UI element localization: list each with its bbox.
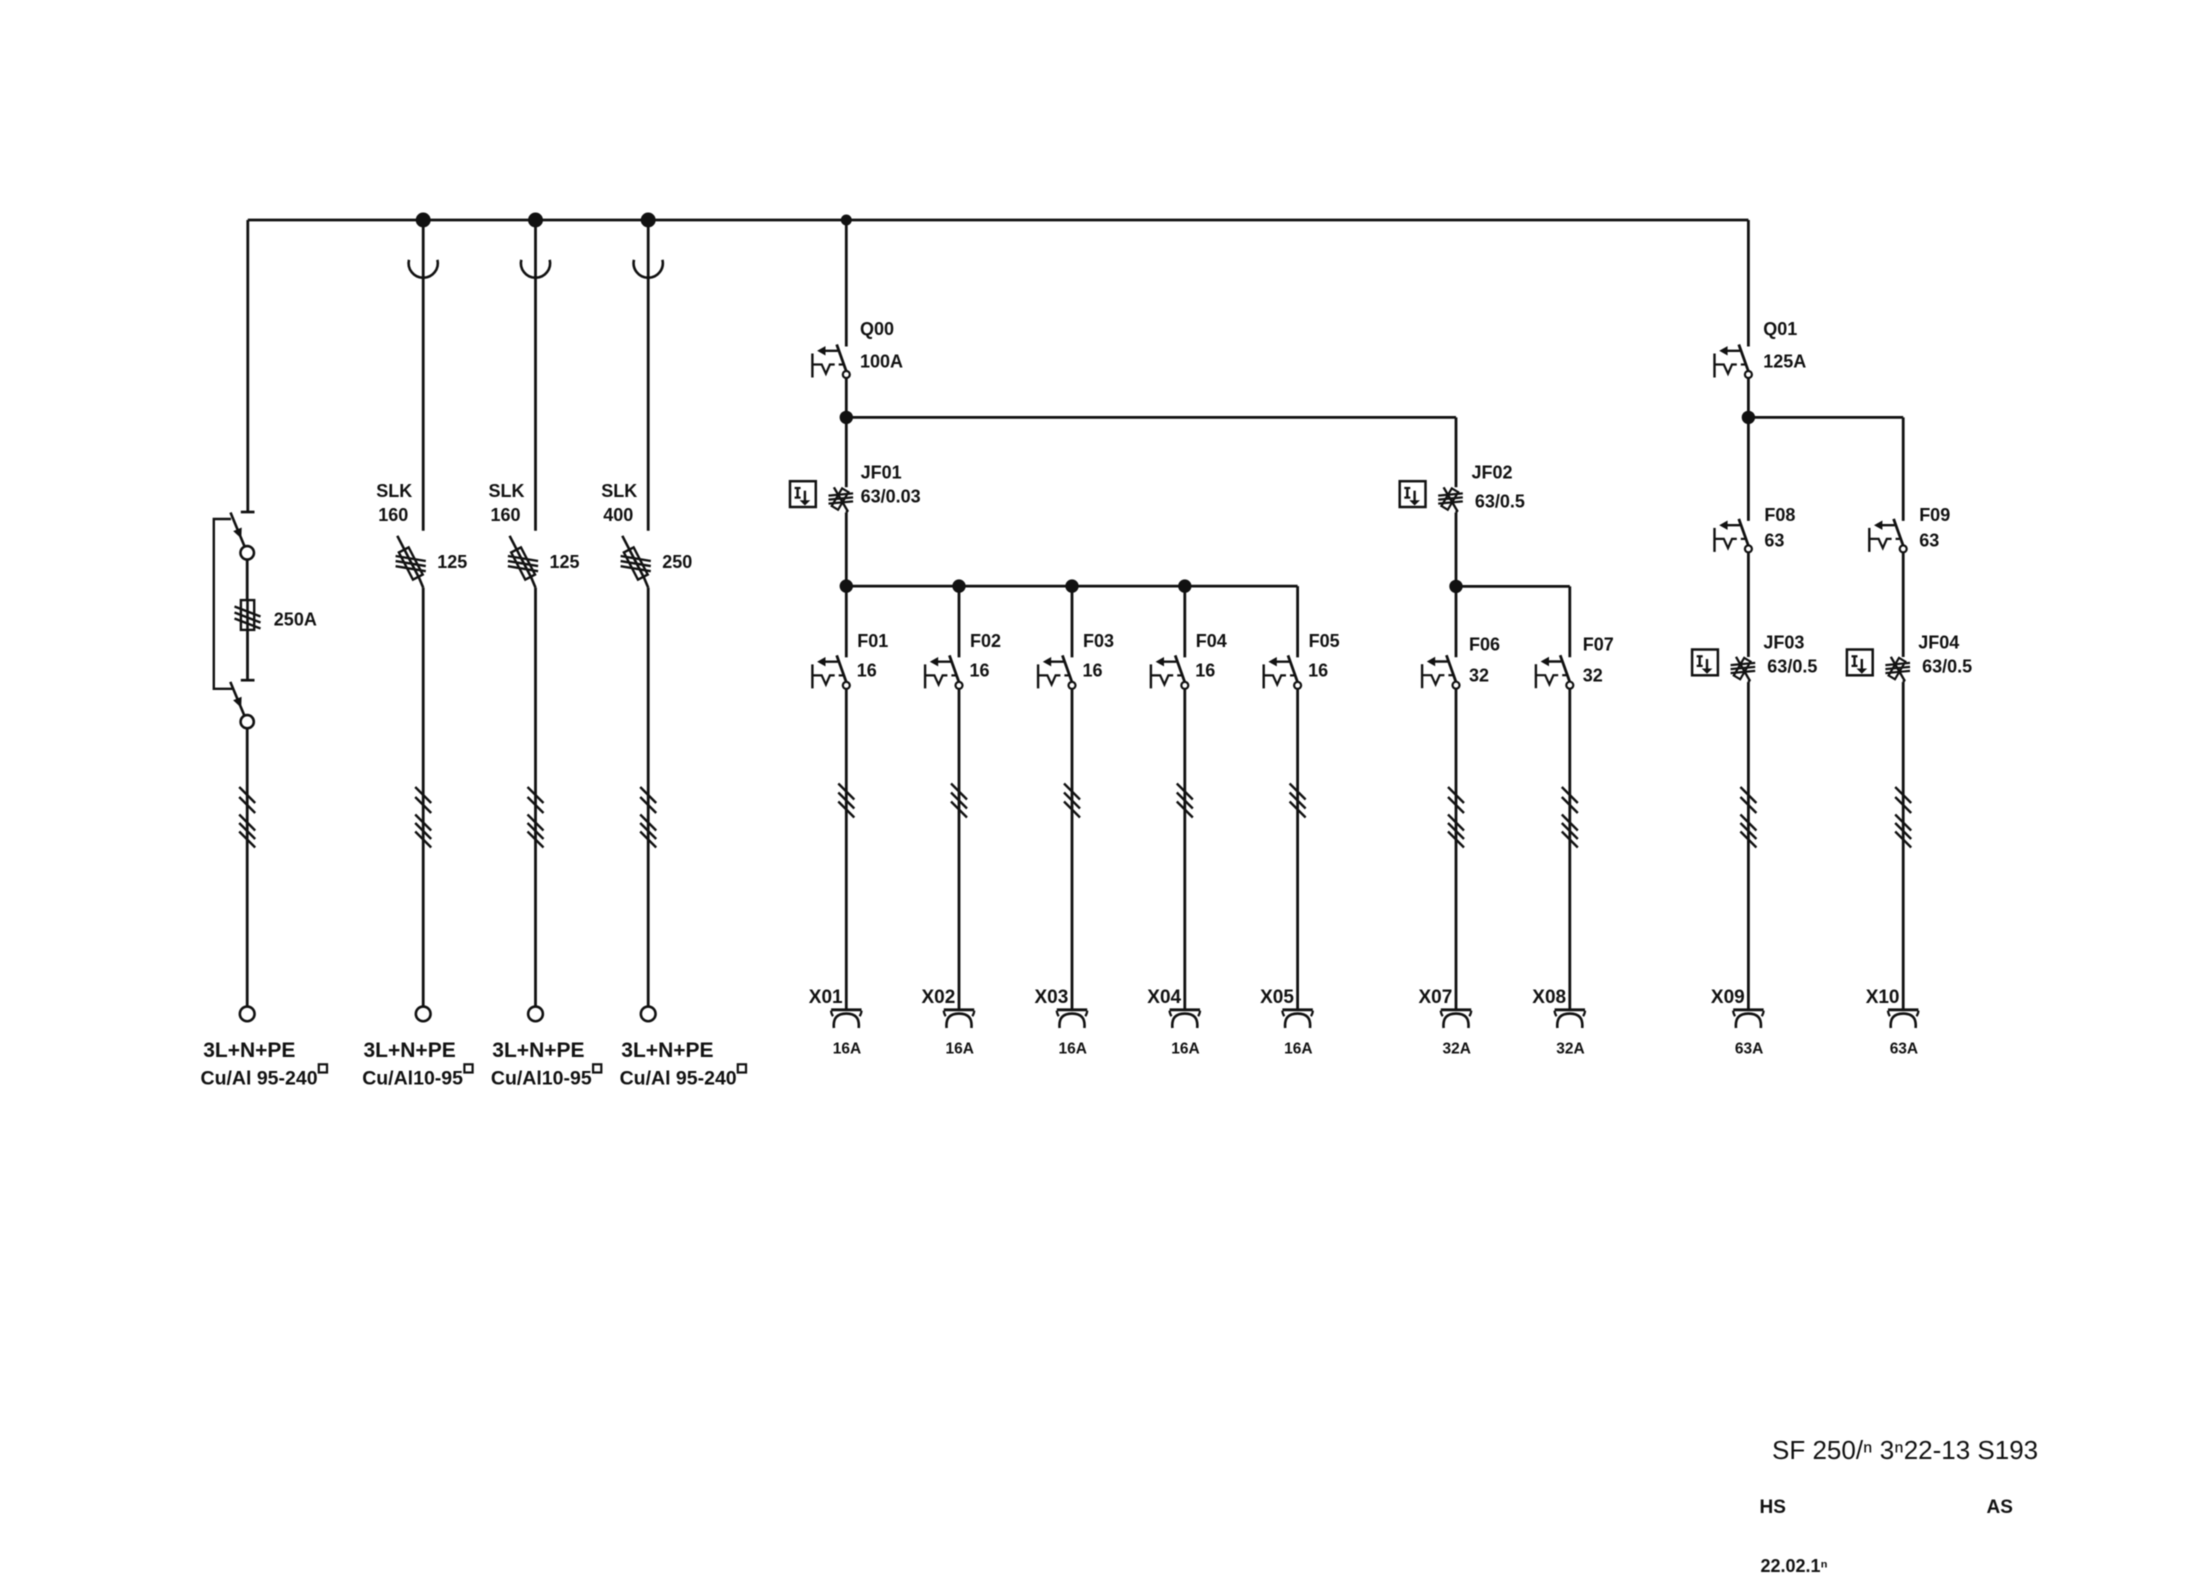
svg-text:16: 16 — [1195, 661, 1215, 681]
svg-text:3L+N+PE: 3L+N+PE — [621, 1039, 713, 1062]
svg-text:16A: 16A — [1171, 1040, 1199, 1057]
svg-text:3L+N+PE: 3L+N+PE — [492, 1039, 584, 1062]
svg-text:SLK: SLK — [489, 481, 525, 501]
svg-text:X04: X04 — [1147, 987, 1181, 1008]
svg-text:63: 63 — [1919, 531, 1939, 551]
svg-text:Q00: Q00 — [860, 319, 894, 339]
svg-text:SLK: SLK — [601, 481, 637, 501]
svg-text:SF 250/ⁿ 3ⁿ22-13 S193: SF 250/ⁿ 3ⁿ22-13 S193 — [1772, 1435, 2038, 1465]
svg-text:F06: F06 — [1469, 635, 1500, 655]
svg-text:32: 32 — [1469, 666, 1489, 686]
svg-text:X08: X08 — [1532, 987, 1566, 1008]
svg-text:AS: AS — [1987, 1497, 2013, 1518]
svg-text:63A: 63A — [1735, 1040, 1763, 1057]
svg-text:F05: F05 — [1309, 631, 1340, 651]
svg-text:400: 400 — [603, 505, 633, 525]
svg-text:F03: F03 — [1083, 631, 1114, 651]
svg-text:100A: 100A — [860, 352, 903, 372]
svg-text:X02: X02 — [922, 987, 956, 1008]
svg-text:JF04: JF04 — [1918, 633, 1959, 653]
svg-text:16: 16 — [970, 661, 990, 681]
svg-text:125A: 125A — [1763, 352, 1806, 372]
svg-text:32: 32 — [1583, 666, 1603, 686]
svg-text:Cu/Al 95-240: Cu/Al 95-240 — [201, 1068, 318, 1090]
svg-text:16: 16 — [857, 661, 877, 681]
svg-text:F02: F02 — [970, 631, 1001, 651]
svg-text:X10: X10 — [1866, 987, 1900, 1008]
svg-text:63/0.03: 63/0.03 — [861, 487, 921, 507]
svg-text:250A: 250A — [274, 610, 317, 630]
svg-text:JF03: JF03 — [1763, 633, 1804, 653]
svg-text:160: 160 — [491, 505, 521, 525]
svg-text:3L+N+PE: 3L+N+PE — [203, 1039, 295, 1062]
svg-text:F08: F08 — [1764, 505, 1795, 525]
svg-text:16A: 16A — [833, 1040, 861, 1057]
svg-text:SLK: SLK — [376, 481, 412, 501]
svg-text:63: 63 — [1764, 531, 1784, 551]
svg-text:22.02.1ⁿ: 22.02.1ⁿ — [1761, 1556, 1828, 1574]
svg-text:Cu/Al10-95: Cu/Al10-95 — [491, 1068, 592, 1090]
svg-text:32A: 32A — [1556, 1040, 1584, 1057]
svg-text:250: 250 — [662, 552, 692, 572]
svg-text:16: 16 — [1083, 661, 1103, 681]
svg-text:63A: 63A — [1890, 1040, 1918, 1057]
svg-text:125: 125 — [437, 552, 467, 572]
svg-text:X01: X01 — [809, 987, 843, 1008]
svg-text:Q01: Q01 — [1763, 319, 1797, 339]
svg-text:F07: F07 — [1583, 635, 1614, 655]
svg-text:F04: F04 — [1196, 631, 1227, 651]
svg-text:Cu/Al10-95: Cu/Al10-95 — [362, 1068, 463, 1090]
svg-text:X03: X03 — [1035, 987, 1069, 1008]
svg-text:JF02: JF02 — [1472, 463, 1513, 483]
svg-text:63/0.5: 63/0.5 — [1922, 657, 1972, 677]
svg-text:F01: F01 — [857, 631, 888, 651]
svg-text:125: 125 — [550, 552, 580, 572]
svg-text:63/0.5: 63/0.5 — [1767, 657, 1817, 677]
svg-text:16: 16 — [1308, 661, 1328, 681]
svg-text:160: 160 — [378, 505, 408, 525]
svg-text:16A: 16A — [1059, 1040, 1087, 1057]
svg-text:32A: 32A — [1443, 1040, 1471, 1057]
svg-text:63/0.5: 63/0.5 — [1475, 492, 1525, 512]
svg-text:16A: 16A — [1284, 1040, 1312, 1057]
svg-text:F09: F09 — [1919, 505, 1950, 525]
svg-text:X09: X09 — [1711, 987, 1745, 1008]
svg-text:X05: X05 — [1260, 987, 1294, 1008]
svg-text:3L+N+PE: 3L+N+PE — [364, 1039, 456, 1062]
svg-text:HS: HS — [1760, 1497, 1786, 1518]
svg-text:Cu/Al 95-240: Cu/Al 95-240 — [620, 1068, 737, 1090]
svg-text:X07: X07 — [1419, 987, 1453, 1008]
svg-text:16A: 16A — [946, 1040, 974, 1057]
svg-text:JF01: JF01 — [861, 463, 902, 483]
